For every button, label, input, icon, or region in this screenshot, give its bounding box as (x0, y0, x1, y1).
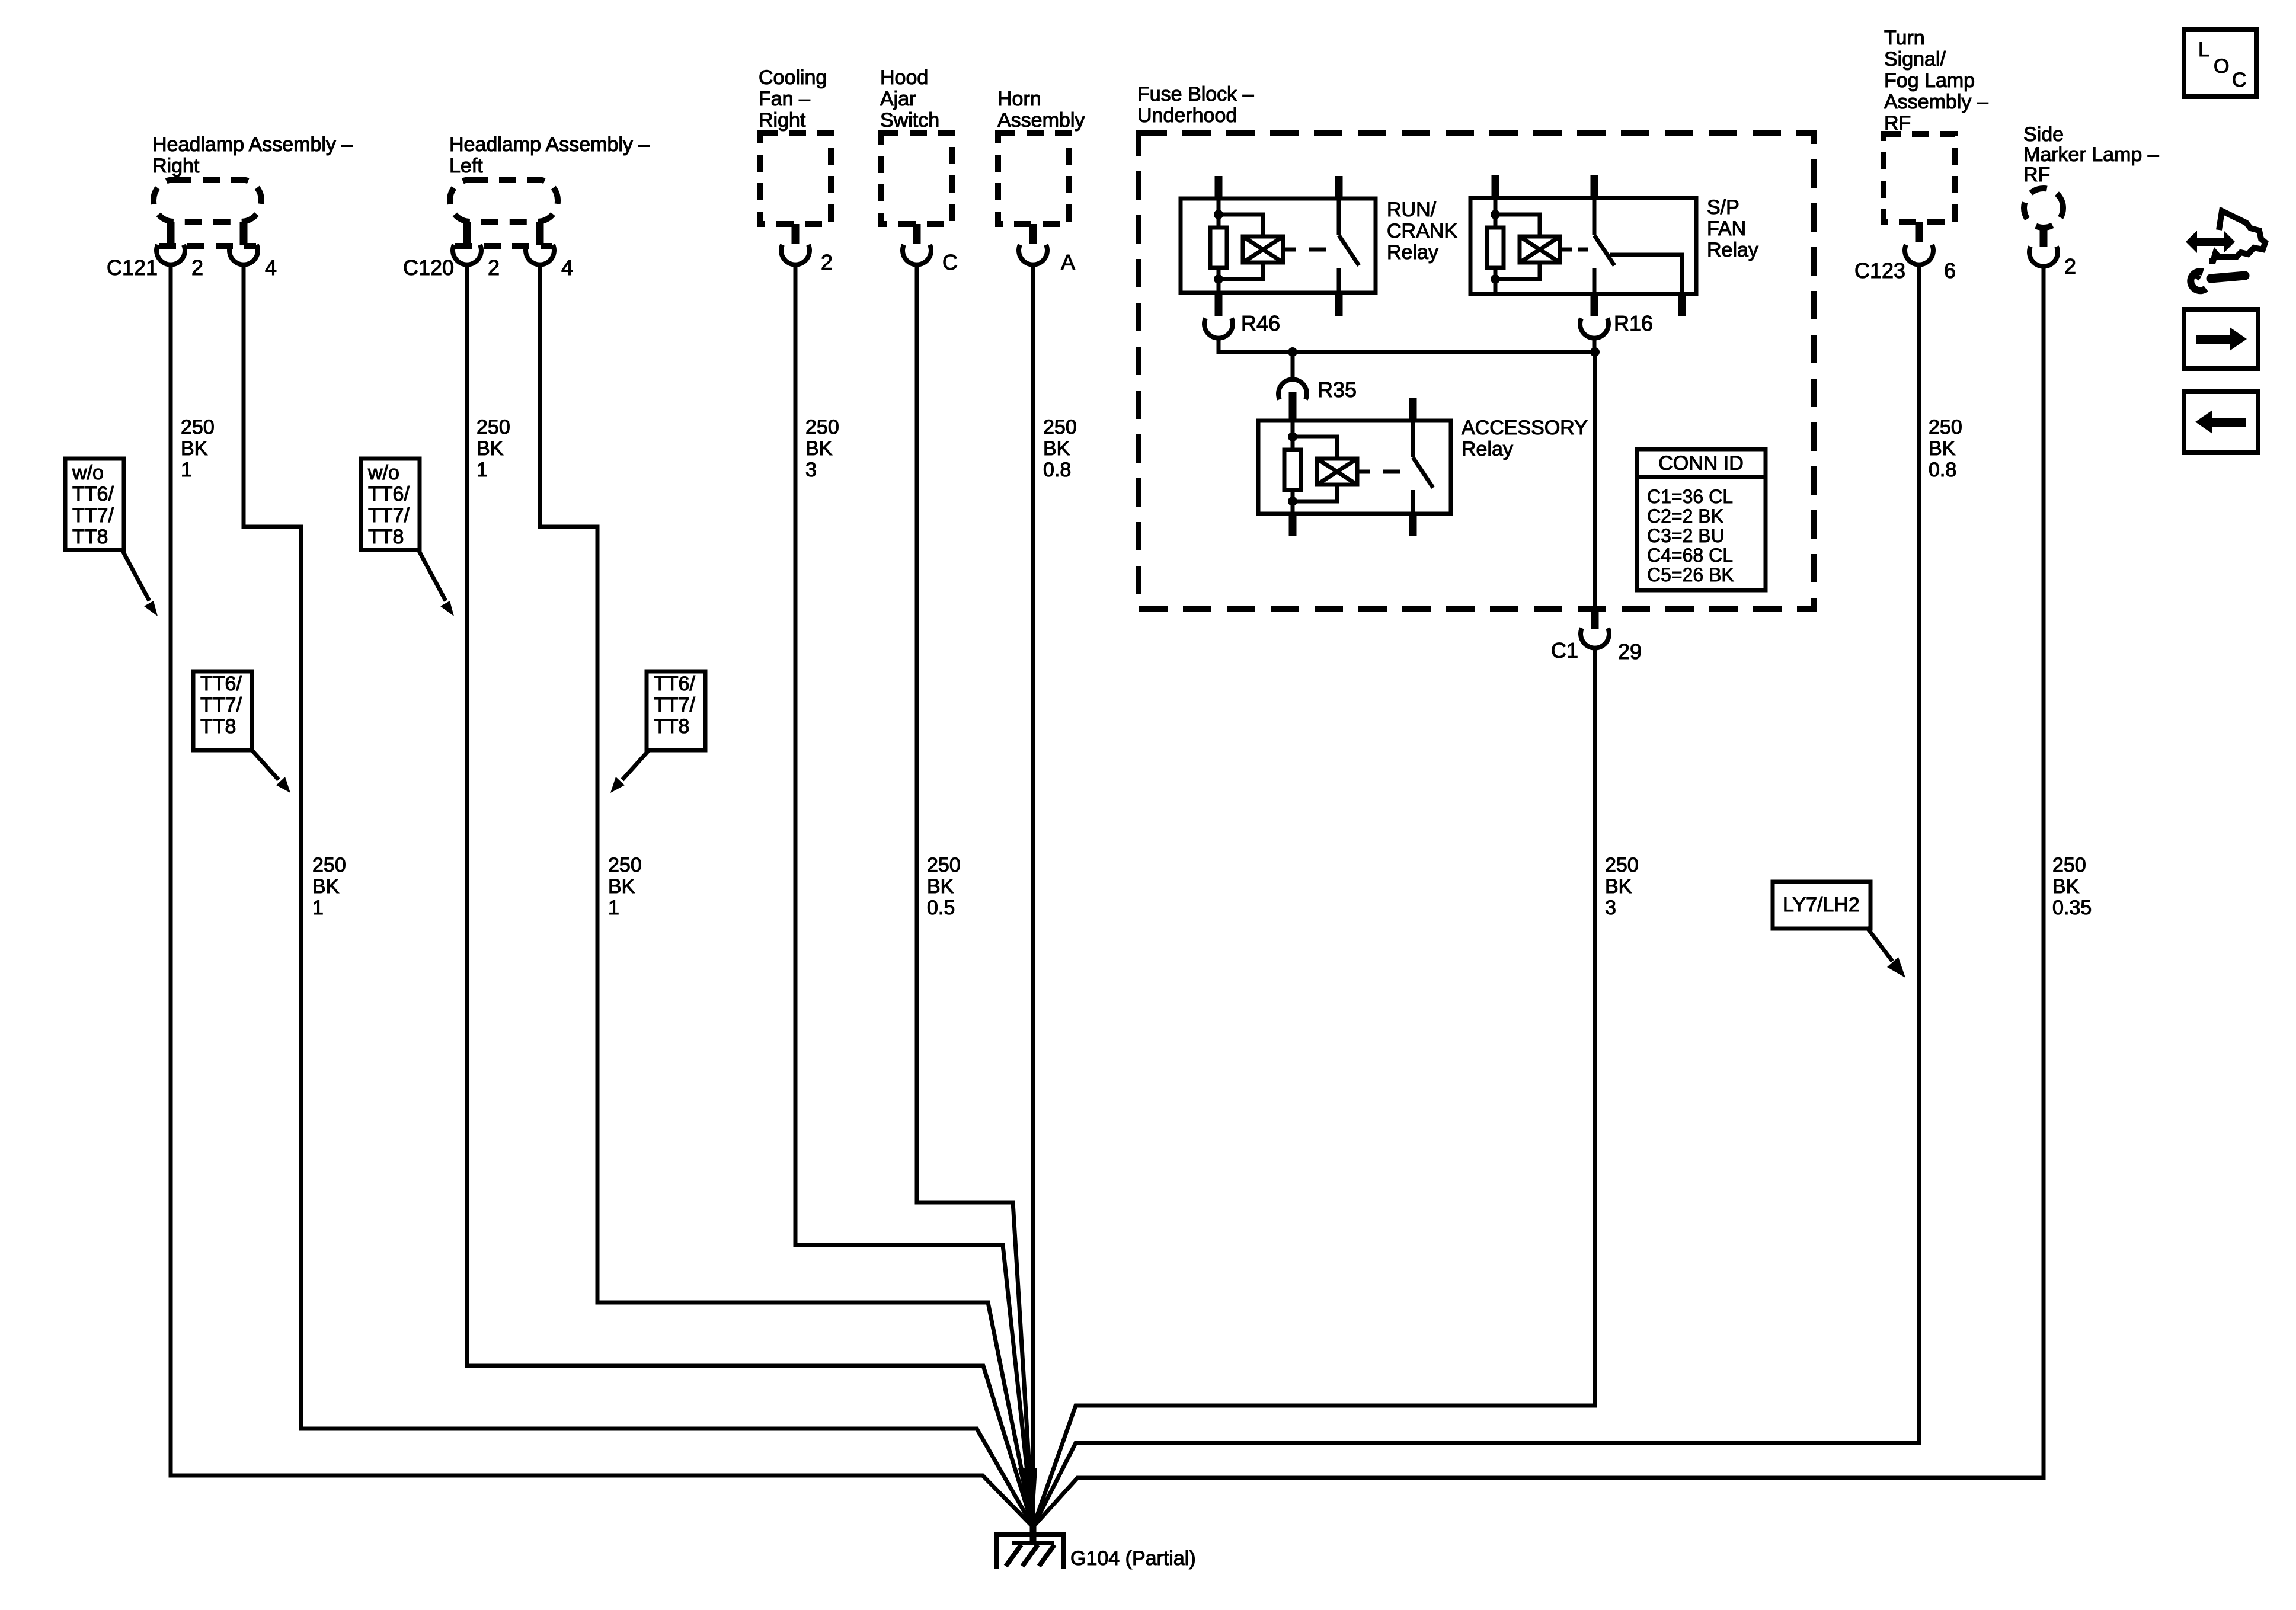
svg-text:0.8: 0.8 (1929, 459, 1956, 481)
svg-text:A: A (1061, 250, 1075, 274)
svg-text:BK: BK (312, 875, 340, 898)
svg-text:BK: BK (181, 437, 208, 460)
svg-text:Right: Right (152, 155, 200, 177)
svg-text:CONN ID: CONN ID (1658, 452, 1744, 475)
svg-text:C4=68 CL: C4=68 CL (1647, 545, 1733, 566)
svg-text:Ajar: Ajar (880, 88, 916, 110)
svg-text:TT6/: TT6/ (654, 673, 695, 695)
svg-text:Cooling: Cooling (759, 66, 827, 89)
svg-text:Headlamp Assembly –: Headlamp Assembly – (152, 133, 353, 156)
svg-text:Fuse Block –: Fuse Block – (1137, 83, 1254, 105)
svg-text:250: 250 (608, 854, 642, 876)
svg-text:0.5: 0.5 (927, 897, 955, 919)
svg-text:BK: BK (1605, 875, 1632, 898)
svg-text:BK: BK (1929, 437, 1956, 460)
svg-text:Relay: Relay (1387, 241, 1438, 264)
svg-text:4: 4 (265, 255, 277, 280)
svg-text:TT7/: TT7/ (200, 694, 242, 716)
svg-text:TT7/: TT7/ (368, 504, 410, 527)
svg-text:Relay: Relay (1462, 438, 1513, 460)
svg-text:4: 4 (561, 255, 573, 280)
svg-text:Headlamp Assembly –: Headlamp Assembly – (449, 133, 650, 156)
svg-text:TT8: TT8 (368, 526, 404, 548)
svg-text:250: 250 (1929, 416, 1962, 438)
svg-text:C: C (942, 250, 958, 274)
svg-text:250: 250 (2052, 854, 2086, 876)
svg-text:G104 (Partial): G104 (Partial) (1070, 1547, 1196, 1570)
svg-text:Right: Right (759, 109, 806, 132)
svg-text:R35: R35 (1318, 377, 1357, 402)
svg-text:Hood: Hood (880, 66, 928, 89)
svg-text:250: 250 (477, 416, 510, 438)
svg-text:1: 1 (312, 897, 324, 919)
svg-text:6: 6 (1944, 258, 1956, 283)
svg-text:250: 250 (927, 854, 961, 876)
svg-text:250: 250 (805, 416, 839, 438)
svg-text:R16: R16 (1614, 311, 1653, 335)
svg-text:Turn: Turn (1884, 27, 1925, 49)
svg-text:Fog Lamp: Fog Lamp (1884, 69, 1975, 92)
svg-text:2: 2 (488, 255, 500, 280)
svg-text:1: 1 (477, 459, 488, 481)
svg-text:250: 250 (181, 416, 215, 438)
svg-text:BK: BK (805, 437, 833, 460)
svg-text:TT6/: TT6/ (368, 483, 410, 505)
svg-text:Assembly –: Assembly – (1884, 91, 1988, 113)
svg-text:Fan –: Fan – (759, 88, 810, 110)
svg-text:LY7/LH2: LY7/LH2 (1783, 894, 1860, 916)
svg-text:TT7/: TT7/ (654, 694, 695, 716)
svg-text:250: 250 (1043, 416, 1077, 438)
svg-text:Switch: Switch (880, 109, 939, 132)
svg-text:TT8: TT8 (72, 526, 108, 548)
svg-text:Relay: Relay (1707, 239, 1758, 261)
svg-text:BK: BK (477, 437, 504, 460)
svg-text:O: O (2214, 55, 2229, 78)
svg-text:BK: BK (2052, 875, 2080, 898)
svg-text:Left: Left (449, 155, 483, 177)
svg-text:2: 2 (191, 255, 203, 280)
svg-text:250: 250 (1605, 854, 1639, 876)
svg-text:CRANK: CRANK (1387, 220, 1457, 242)
svg-text:Signal/: Signal/ (1884, 48, 1946, 71)
svg-text:Marker Lamp –: Marker Lamp – (2023, 143, 2159, 166)
svg-text:R46: R46 (1241, 311, 1280, 335)
svg-text:TT6/: TT6/ (200, 673, 242, 695)
svg-text:C3=2 BU: C3=2 BU (1647, 525, 1725, 546)
svg-text:2: 2 (821, 250, 833, 274)
svg-text:1: 1 (181, 459, 192, 481)
svg-text:C2=2 BK: C2=2 BK (1647, 505, 1723, 527)
svg-text:Assembly: Assembly (997, 109, 1085, 132)
svg-text:3: 3 (1605, 897, 1616, 919)
svg-text:Horn: Horn (997, 88, 1041, 110)
svg-text:TT8: TT8 (654, 715, 689, 738)
svg-text:w/o: w/o (72, 462, 104, 484)
svg-text:2: 2 (2064, 254, 2076, 279)
svg-text:TT6/: TT6/ (72, 483, 114, 505)
svg-text:S/P: S/P (1707, 196, 1739, 219)
svg-text:FAN: FAN (1707, 217, 1746, 240)
svg-text:RUN/: RUN/ (1387, 199, 1437, 221)
svg-text:C120: C120 (403, 255, 454, 280)
svg-text:BK: BK (927, 875, 954, 898)
svg-text:C5=26 BK: C5=26 BK (1647, 564, 1734, 585)
svg-text:1: 1 (608, 897, 619, 919)
svg-text:RF: RF (2023, 164, 2050, 186)
svg-text:w/o: w/o (367, 462, 399, 484)
svg-text:29: 29 (1618, 639, 1642, 664)
svg-text:250: 250 (312, 854, 346, 876)
svg-text:L: L (2198, 39, 2209, 61)
svg-text:0.8: 0.8 (1043, 459, 1071, 481)
svg-text:C1: C1 (1551, 638, 1578, 662)
svg-text:Side: Side (2023, 123, 2064, 146)
svg-text:0.35: 0.35 (2052, 897, 2092, 919)
svg-text:3: 3 (805, 459, 817, 481)
svg-text:C: C (2232, 69, 2247, 91)
svg-text:C121: C121 (107, 255, 158, 280)
svg-text:Underhood: Underhood (1137, 104, 1237, 127)
svg-text:ACCESSORY: ACCESSORY (1462, 417, 1588, 439)
svg-text:TT7/: TT7/ (72, 504, 114, 527)
svg-text:BK: BK (608, 875, 635, 898)
svg-text:BK: BK (1043, 437, 1070, 460)
svg-text:C123: C123 (1854, 258, 1905, 283)
svg-text:C1=36 CL: C1=36 CL (1647, 486, 1733, 507)
svg-text:TT8: TT8 (200, 715, 236, 738)
